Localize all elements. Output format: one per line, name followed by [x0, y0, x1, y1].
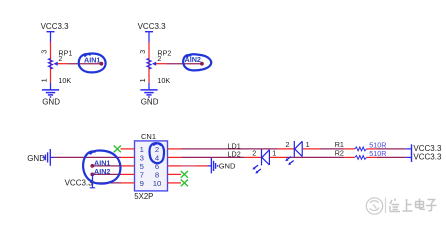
svg-text:9: 9 [140, 179, 144, 188]
svg-text:1: 1 [138, 78, 147, 82]
svg-text:3: 3 [138, 50, 147, 54]
svg-text:GND: GND [141, 97, 159, 106]
svg-text:2: 2 [286, 140, 290, 149]
svg-text:VCC3.3: VCC3.3 [41, 22, 70, 31]
svg-text:5X2P: 5X2P [134, 192, 153, 201]
svg-text:510R: 510R [369, 149, 386, 158]
svg-text:AIN2: AIN2 [94, 167, 110, 176]
svg-text:2: 2 [157, 54, 161, 63]
svg-text:CN1: CN1 [141, 132, 156, 141]
svg-text:GND: GND [27, 154, 45, 163]
svg-text:3: 3 [39, 50, 48, 54]
svg-text:2: 2 [58, 54, 62, 63]
svg-text:1: 1 [272, 149, 276, 158]
svg-text:10K: 10K [157, 76, 170, 85]
svg-text:2: 2 [252, 149, 256, 158]
svg-text:10K: 10K [58, 76, 71, 85]
svg-text:R2: R2 [335, 149, 344, 158]
svg-text:10: 10 [153, 179, 162, 188]
svg-text:1: 1 [306, 140, 310, 149]
svg-text:VCC3.3: VCC3.3 [413, 153, 442, 162]
svg-text:GND: GND [219, 162, 236, 171]
svg-text:GND: GND [42, 97, 60, 106]
svg-text:VCC3.3: VCC3.3 [138, 22, 167, 31]
svg-text:LD2: LD2 [228, 150, 241, 159]
svg-text:1: 1 [39, 78, 48, 82]
svg-text:AIN1: AIN1 [84, 55, 100, 64]
